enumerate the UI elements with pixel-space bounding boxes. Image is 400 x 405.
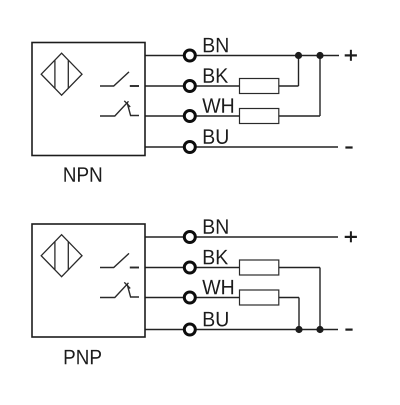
sensor optics diamond (NPN) (41, 53, 82, 95)
wire BK (PNP) (145, 267, 320, 269)
supply minus symbol (PNP) (345, 329, 352, 331)
switch contact NO (PNP) (100, 253, 139, 267)
terminal BK (NPN) (184, 81, 195, 92)
label BN (PNP) (204, 219, 228, 233)
junction dot BK/BN (NPN) (295, 52, 302, 59)
supply plus symbol (NPN) (345, 50, 357, 61)
supply minus symbol (NPN) (345, 146, 352, 148)
diamond chord left (PNP) (54, 242, 56, 270)
wire WH (PNP) (145, 297, 299, 299)
sensor body PNP (32, 224, 145, 337)
load resistor BK (PNP) (240, 260, 279, 275)
sensor optics diamond (PNP) (41, 235, 82, 277)
wire BK (NPN) (145, 85, 299, 87)
label BU (PNP) (204, 312, 228, 327)
switch contact NC with cross (NPN) (100, 101, 139, 116)
wire BN (PNP) (145, 236, 338, 238)
label BK (PNP) (204, 250, 228, 264)
diamond chord left (NPN) (54, 60, 56, 88)
wire WH-to-BU dropper (PNP) (298, 298, 300, 330)
label NPN (64, 167, 101, 181)
label PNP (65, 350, 101, 364)
junction dot WH/BN (NPN) (316, 52, 323, 59)
terminal BN (NPN) (184, 50, 195, 61)
load resistor WH (NPN) (240, 109, 279, 124)
terminal WH (NPN) (184, 111, 195, 122)
terminal BN (PNP) (184, 232, 195, 243)
terminal WH (PNP) (184, 292, 195, 303)
wire BK-to-BU dropper (PNP) (319, 268, 321, 330)
wire WH (NPN) (145, 115, 320, 117)
switch contact NC with cross (PNP) (100, 282, 139, 297)
diamond chord right (PNP) (67, 242, 69, 270)
sensor body NPN (32, 43, 145, 156)
junction dot BK/BU (PNP) (316, 326, 323, 333)
terminal BU (PNP) (184, 324, 195, 335)
diamond chord right (NPN) (67, 60, 69, 88)
label WH (PNP) (202, 280, 233, 294)
terminal BK (PNP) (184, 262, 195, 273)
load resistor BK (NPN) (240, 79, 279, 94)
wire BN (NPN) (145, 55, 339, 57)
label BU (NPN) (204, 129, 228, 144)
wire BU (PNP) (145, 329, 338, 331)
label BK (NPN) (204, 68, 228, 82)
label WH (NPN) (202, 98, 233, 112)
label BN (NPN) (204, 38, 228, 52)
wire BK-to-BN riser (NPN) (298, 56, 300, 87)
switch contact NO (NPN) (100, 72, 139, 86)
wire BU (NPN) (145, 146, 338, 148)
junction dot WH/BU (PNP) (295, 326, 302, 333)
wire WH-to-BN riser (NPN) (319, 56, 321, 117)
supply plus symbol (PNP) (345, 231, 357, 242)
load resistor WH (PNP) (240, 290, 279, 305)
terminal BU (NPN) (184, 142, 195, 153)
